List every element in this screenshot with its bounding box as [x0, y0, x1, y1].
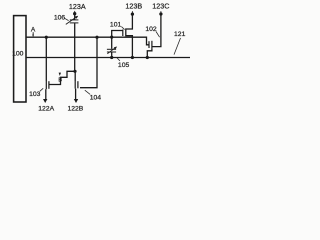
svg-text:102: 102: [145, 26, 157, 33]
svg-text:122A: 122A: [38, 105, 54, 112]
svg-text:A: A: [31, 27, 36, 34]
svg-text:101: 101: [110, 22, 122, 29]
svg-text:123C: 123C: [152, 2, 169, 11]
svg-text:105: 105: [118, 62, 130, 69]
svg-text:104: 104: [90, 95, 102, 102]
svg-text:123A: 123A: [69, 2, 86, 11]
svg-text:B: B: [58, 78, 62, 84]
svg-text:122B: 122B: [67, 105, 83, 112]
svg-text:106: 106: [54, 14, 66, 21]
svg-text:100: 100: [12, 51, 24, 58]
svg-text:103: 103: [29, 91, 41, 98]
svg-text:123B: 123B: [125, 2, 142, 11]
svg-text:121: 121: [174, 31, 186, 38]
